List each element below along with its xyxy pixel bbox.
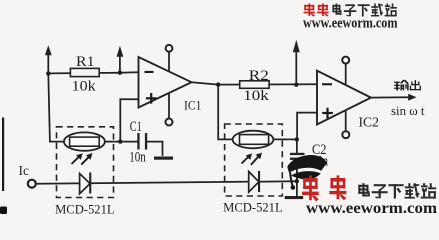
svg-text:sin ω t: sin ω t bbox=[391, 103, 425, 118]
svg-text:R1: R1 bbox=[76, 54, 95, 70]
svg-text:IC2: IC2 bbox=[359, 116, 380, 131]
svg-text:10k: 10k bbox=[243, 88, 269, 104]
svg-text:MCD-521L: MCD-521L bbox=[55, 202, 115, 214]
svg-text:MCD-521L: MCD-521L bbox=[223, 201, 283, 214]
svg-text:www.eeworm.com: www.eeworm.com bbox=[306, 199, 437, 214]
svg-text:Ic: Ic bbox=[19, 163, 30, 178]
svg-text:10n: 10n bbox=[129, 149, 146, 165]
svg-text:C1: C1 bbox=[130, 119, 142, 135]
svg-text:10k: 10k bbox=[72, 78, 97, 94]
svg-text:IC1: IC1 bbox=[184, 98, 202, 113]
svg-text:R2: R2 bbox=[249, 68, 269, 84]
svg-text:www.eeworm.com: www.eeworm.com bbox=[303, 15, 398, 31]
